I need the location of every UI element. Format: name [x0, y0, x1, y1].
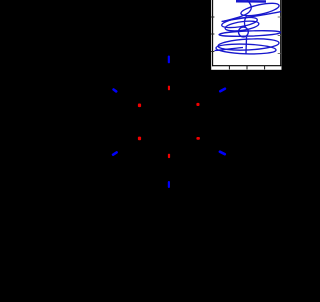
trajectory top band	[236, 0, 266, 3]
atom N4 (lower-left nitrile N, diagonal bar)	[113, 152, 117, 154]
trajectory loop 2	[221, 15, 258, 29]
trajectory flat loop	[219, 30, 281, 37]
trajectory loop 6	[216, 43, 276, 55]
trajectory descent S-curve	[223, 0, 252, 22]
trajectory loop 5	[218, 38, 279, 52]
atom N6 (bottom nitrile N, vertical bar)	[168, 182, 170, 187]
atom N2 (upper-left nitrile N, diagonal bar)	[114, 90, 117, 92]
atom O6 (bottom center O, small vertical bar)	[168, 154, 170, 158]
atom O4 (lower-left O)	[138, 137, 141, 141]
atom N3 (upper-right nitrile N, diagonal bar)	[220, 89, 225, 92]
trajectory loop 1	[240, 1, 280, 18]
bottom axis ticks	[229, 66, 264, 70]
trajectory left tail	[215, 48, 244, 51]
atom O1 (top center O, small vertical bar)	[168, 86, 170, 91]
right axis ticks	[278, 17, 281, 54]
atom O2 (upper-left O)	[138, 104, 141, 108]
atom O5 (lower-right O)	[196, 137, 200, 140]
atom O3 (upper-right O)	[196, 103, 199, 106]
atom N1 (top nitrile N, vertical bar)	[168, 57, 170, 63]
inset axes frame	[212, 0, 281, 66]
trajectory vertical meander	[244, 16, 246, 54]
inset plot white background	[211, 0, 281, 70]
trajectory diagonal line 1	[222, 12, 282, 22]
left axis ticks	[211, 17, 214, 52]
trajectory small loop	[239, 27, 249, 37]
trajectory loop 3	[225, 19, 260, 32]
atom N5 (lower-right nitrile N, diagonal bar)	[220, 152, 225, 155]
